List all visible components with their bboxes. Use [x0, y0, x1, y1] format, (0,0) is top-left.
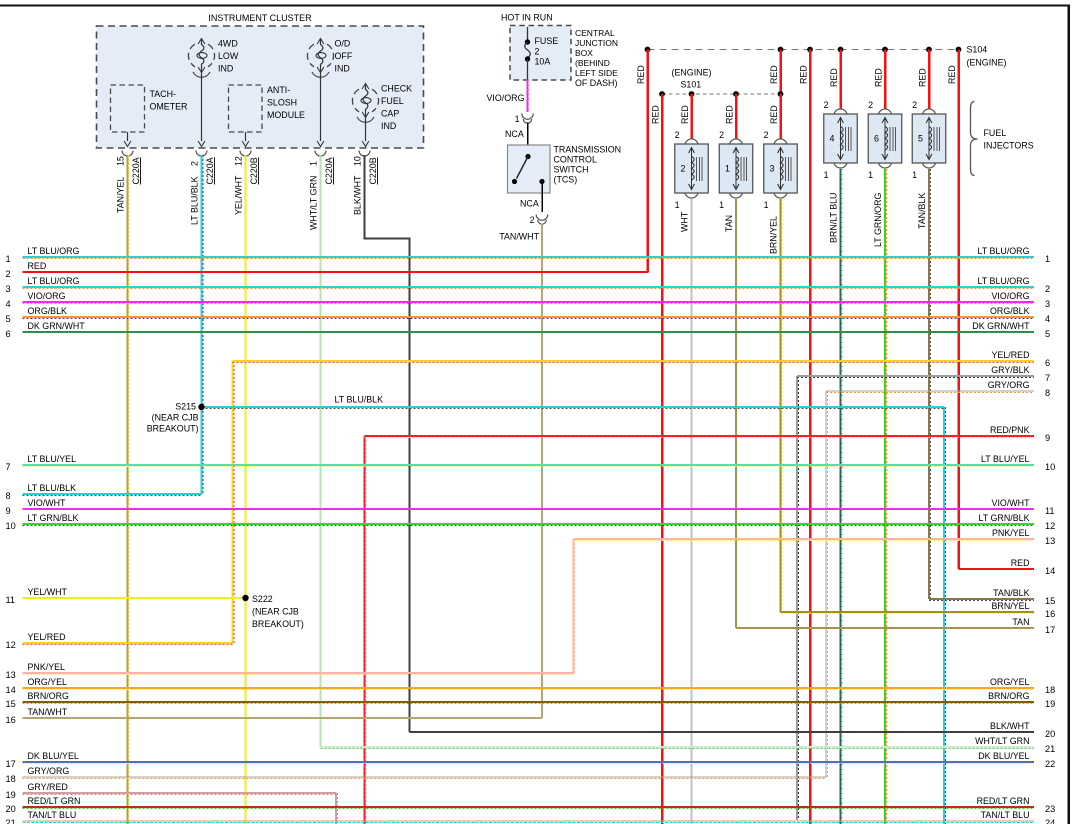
svg-text:1: 1	[868, 170, 873, 180]
injector 1 (fuel injector coil)	[719, 130, 753, 232]
svg-text:5: 5	[918, 134, 923, 144]
svg-text:IND: IND	[335, 64, 350, 74]
svg-text:(NEAR CJB: (NEAR CJB	[152, 413, 199, 423]
svg-text:24: 24	[1045, 818, 1055, 824]
svg-text:C220A: C220A	[205, 157, 215, 184]
svg-text:8: 8	[1045, 388, 1050, 398]
wire YEL/RED horizontal y=643	[23, 643, 234, 644]
wire TAN/YEL vertical x=127.5	[128, 155, 129, 824]
lamp 4WD LOW IND	[188, 39, 238, 78]
svg-text:ORG/BLK: ORG/BLK	[990, 306, 1030, 316]
svg-text:ORG/BLK: ORG/BLK	[28, 306, 68, 316]
svg-text:TAN: TAN	[1012, 617, 1029, 627]
connector C220B pin 12 (YEL/WHT)	[234, 151, 259, 216]
svg-text:WHT: WHT	[680, 211, 690, 232]
wire LT BLU/BLK from S215 horizontal y=407	[202, 407, 945, 408]
wire BRN/ORG horizontal y=702	[23, 702, 1035, 703]
svg-text:TAN/WHT: TAN/WHT	[499, 232, 539, 242]
wire RED S101 to injector 1 vertical x=736	[735, 94, 738, 139]
svg-text:SLOSH: SLOSH	[267, 98, 297, 108]
wire GRY/BLK dropper vertical x=797	[797, 376, 798, 820]
svg-text:MODULE: MODULE	[267, 110, 305, 120]
svg-text:O/D: O/D	[335, 39, 351, 49]
svg-text:(TCS): (TCS)	[554, 175, 578, 185]
svg-text:LT BLU/ORG: LT BLU/ORG	[28, 246, 80, 256]
wire YEL/RED horizontal y=361	[233, 361, 1035, 362]
svg-text:2: 2	[868, 100, 873, 110]
svg-text:6: 6	[6, 329, 11, 339]
svg-text:2: 2	[535, 47, 540, 57]
svg-text:3: 3	[770, 164, 775, 174]
svg-text:1: 1	[824, 170, 829, 180]
wire ORG/BLK horizontal y=317	[23, 317, 1035, 318]
wire WHT/LT GRN vertical x=320.5	[320, 155, 322, 747]
anti-slosh module box	[229, 85, 306, 132]
svg-text:(BEHIND: (BEHIND	[575, 58, 610, 68]
wire VIO/WHT horizontal y=509	[23, 508, 1035, 510]
svg-text:10: 10	[6, 521, 16, 531]
svg-text:GRY/BLK: GRY/BLK	[991, 365, 1029, 375]
svg-text:VIO/ORG: VIO/ORG	[487, 93, 525, 103]
injector 5 (fuel injector coil)	[912, 100, 946, 229]
wire PNK/YEL riser vertical x=573.5	[574, 539, 575, 673]
wire 4WD lamp to connector	[198, 73, 205, 147]
splice S222	[242, 594, 304, 629]
svg-text:LEFT SIDE: LEFT SIDE	[575, 68, 618, 78]
svg-text:22: 22	[1045, 759, 1055, 769]
svg-text:RED: RED	[28, 261, 47, 271]
svg-text:RED: RED	[636, 65, 646, 84]
wire RED S104 to row RED (right) vertical x=958.5	[957, 50, 960, 570]
svg-text:VIO/WHT: VIO/WHT	[992, 498, 1031, 508]
svg-text:19: 19	[1045, 699, 1055, 709]
connector C220A pin 15 (TAN/YEL)	[116, 151, 141, 214]
svg-text:RED/PNK: RED/PNK	[990, 425, 1030, 435]
wire GRY/ORG horizontal y=391	[826, 391, 1034, 392]
svg-text:RED: RED	[769, 105, 779, 124]
svg-text:TAN/WHT: TAN/WHT	[28, 707, 68, 717]
svg-text:16: 16	[6, 715, 16, 725]
svg-text:DK GRN/WHT: DK GRN/WHT	[972, 321, 1030, 331]
svg-text:BLK/WHT: BLK/WHT	[990, 721, 1030, 731]
svg-text:S101: S101	[681, 80, 702, 90]
wire RED S101 drop to bottom vertical x=662	[661, 94, 664, 824]
svg-text:LT BLU/BLK: LT BLU/BLK	[190, 176, 200, 225]
svg-text:TAN/YEL: TAN/YEL	[116, 177, 126, 213]
wire LT BLU/BLK dropper from S215 line vertical x=944	[944, 407, 945, 824]
svg-text:S104: S104	[967, 45, 988, 55]
svg-text:YEL/WHT: YEL/WHT	[234, 175, 244, 215]
svg-text:LT GRN/BLK: LT GRN/BLK	[28, 513, 79, 523]
svg-text:HOT IN RUN: HOT IN RUN	[501, 13, 553, 23]
svg-text:17: 17	[6, 759, 16, 769]
injector 4 (fuel injector coil)	[824, 100, 858, 243]
svg-text:RED/LT GRN: RED/LT GRN	[28, 796, 81, 806]
svg-text:WHT/LT GRN: WHT/LT GRN	[309, 176, 319, 230]
svg-text:GRY/RED: GRY/RED	[28, 782, 68, 792]
svg-text:VIO/ORG: VIO/ORG	[28, 291, 66, 301]
wire VIO/ORG horizontal y=302	[23, 302, 1035, 303]
wire check fuel cap lamp to connector	[362, 118, 369, 147]
svg-text:RED/LT GRN: RED/LT GRN	[977, 796, 1030, 806]
wire RED/LT GRN horizontal y=807	[23, 807, 1035, 808]
svg-text:RED: RED	[725, 105, 735, 124]
svg-text:CENTRAL: CENTRAL	[575, 28, 615, 38]
wire RED S104 to injector 4 vertical x=840.5	[839, 50, 842, 110]
wire BRN/LT BLU from injector 4 vertical x=840.5	[841, 169, 842, 824]
svg-text:11: 11	[6, 595, 16, 605]
svg-text:WHT/LT GRN: WHT/LT GRN	[975, 736, 1029, 746]
svg-text:1: 1	[515, 114, 520, 124]
svg-text:5: 5	[6, 314, 11, 324]
svg-text:19: 19	[6, 790, 16, 800]
svg-text:20: 20	[6, 804, 16, 814]
svg-text:15: 15	[6, 699, 16, 709]
wire TAN/BLK horizontal y=599	[929, 599, 1034, 600]
svg-text:FUEL: FUEL	[984, 128, 1007, 138]
svg-text:2: 2	[824, 100, 829, 110]
wire RED/PNK horizontal y=436	[365, 436, 1035, 437]
svg-text:LT BLU/YEL: LT BLU/YEL	[28, 454, 77, 464]
wire PNK/YEL horizontal y=539	[574, 539, 1035, 540]
svg-text:6: 6	[874, 134, 879, 144]
svg-text:ANTI-: ANTI-	[267, 85, 290, 95]
svg-text:18: 18	[6, 774, 16, 784]
svg-text:INJECTORS: INJECTORS	[984, 141, 1034, 151]
svg-text:NCA: NCA	[505, 129, 524, 139]
svg-text:IND: IND	[381, 121, 396, 131]
svg-text:YEL/WHT: YEL/WHT	[28, 587, 68, 597]
wire RED S104 to row RED (left) vertical x=647.5	[646, 50, 649, 273]
svg-text:RED: RED	[829, 68, 839, 87]
wire RED/PNK dropper vertical x=364.5	[365, 436, 366, 824]
instrument cluster box	[97, 13, 424, 148]
svg-text:RED: RED	[918, 68, 928, 87]
wire BLK/WHT horizontal y=732	[410, 731, 1035, 733]
wire tachometer to connector	[124, 132, 131, 147]
wire GRY/RED horizontal y=793	[23, 793, 337, 794]
central junction box	[510, 26, 618, 89]
svg-text:2: 2	[190, 161, 200, 166]
wire BLK/WHT from cluster (jog)	[365, 155, 410, 732]
svg-text:15: 15	[1045, 596, 1055, 606]
svg-text:GRY/ORG: GRY/ORG	[28, 766, 70, 776]
inline connector pin 1 (NCA)	[505, 114, 533, 140]
svg-text:2: 2	[530, 215, 535, 225]
svg-text:OFF: OFF	[335, 51, 353, 61]
wire LT BLU/YEL horizontal y=465	[23, 465, 1035, 466]
svg-text:DK GRN/WHT: DK GRN/WHT	[28, 321, 86, 331]
svg-text:13: 13	[1045, 536, 1055, 546]
svg-text:1: 1	[6, 254, 11, 264]
svg-text:21: 21	[1045, 744, 1055, 754]
svg-text:BREAKOUT): BREAKOUT)	[252, 619, 304, 629]
wire TAN/WHT from TCS vertical x=542	[541, 224, 543, 719]
wire YEL/WHT horizontal y=598	[23, 597, 246, 599]
svg-text:PNK/YEL: PNK/YEL	[992, 528, 1030, 538]
svg-text:FUEL: FUEL	[381, 96, 404, 106]
svg-text:10A: 10A	[535, 57, 551, 67]
svg-text:11: 11	[1045, 506, 1055, 516]
svg-text:CHECK: CHECK	[381, 84, 412, 94]
svg-text:DK BLU/YEL: DK BLU/YEL	[28, 751, 79, 761]
svg-text:(ENGINE): (ENGINE)	[967, 58, 1007, 68]
svg-text:(NEAR CJB: (NEAR CJB	[252, 607, 299, 617]
svg-text:4WD: 4WD	[218, 39, 238, 49]
splice S215	[147, 402, 205, 434]
svg-text:4: 4	[830, 134, 835, 144]
svg-text:FUSE: FUSE	[535, 36, 559, 46]
svg-text:2: 2	[681, 164, 686, 174]
connector C220A pin 2 (LT BLU/BLK)	[190, 151, 215, 226]
wire GRY/RED dropper vertical x=336	[336, 793, 337, 824]
svg-text:LT GRN/BLK: LT GRN/BLK	[979, 513, 1030, 523]
svg-text:C220A: C220A	[324, 157, 334, 184]
svg-text:9: 9	[6, 506, 11, 516]
svg-text:12: 12	[1045, 521, 1055, 531]
svg-text:RED: RED	[1011, 558, 1030, 568]
svg-text:10: 10	[353, 156, 363, 166]
wire LT BLU/ORG horizontal y=287	[23, 287, 1035, 288]
svg-text:TAN: TAN	[724, 215, 734, 232]
svg-text:TAN/BLK: TAN/BLK	[993, 588, 1029, 598]
fuel injectors brace	[971, 102, 1034, 176]
svg-text:ORG/YEL: ORG/YEL	[28, 677, 68, 687]
svg-text:BRN/YEL: BRN/YEL	[769, 216, 779, 254]
svg-text:18: 18	[1045, 685, 1055, 695]
svg-text:17: 17	[1045, 625, 1055, 635]
svg-text:1: 1	[912, 170, 917, 180]
svg-text:CAP: CAP	[381, 109, 399, 119]
wire TAN/WHT horizontal y=718	[23, 717, 543, 719]
svg-text:4: 4	[6, 299, 11, 309]
svg-text:LT BLU/BLK: LT BLU/BLK	[335, 395, 384, 405]
svg-text:4: 4	[1045, 314, 1050, 324]
svg-text:LT GRN/ORG: LT GRN/ORG	[873, 192, 883, 247]
svg-text:2: 2	[1045, 284, 1050, 294]
svg-text:ORG/YEL: ORG/YEL	[990, 677, 1030, 687]
wire RED S104 to injector 5 vertical x=929	[928, 50, 931, 110]
svg-text:23: 23	[1045, 804, 1055, 814]
svg-text:BOX: BOX	[575, 48, 593, 58]
svg-text:BRN/ORG: BRN/ORG	[28, 691, 70, 701]
wire PNK/YEL horizontal y=673	[23, 673, 575, 674]
svg-text:NCA: NCA	[520, 199, 539, 209]
wire RED horizontal y=569	[959, 568, 1035, 570]
svg-text:1: 1	[719, 200, 724, 210]
svg-text:13: 13	[6, 670, 16, 680]
svg-text:RED: RED	[947, 65, 957, 84]
svg-text:BREAKOUT): BREAKOUT)	[147, 424, 199, 434]
node S104 label	[967, 45, 1007, 68]
svg-text:LT BLU/ORG: LT BLU/ORG	[978, 276, 1030, 286]
wire anti-slosh module to connector	[242, 132, 249, 147]
svg-text:PNK/YEL: PNK/YEL	[28, 662, 66, 672]
wire RED horizontal y=272	[23, 271, 649, 273]
wire TAN/LT BLU horizontal y=821	[23, 820, 1035, 822]
svg-text:1: 1	[1045, 254, 1050, 264]
svg-text:DK BLU/YEL: DK BLU/YEL	[978, 751, 1029, 761]
fuse 2 10A	[525, 27, 559, 80]
svg-text:C220B: C220B	[249, 157, 259, 184]
svg-text:LOW: LOW	[218, 51, 239, 61]
svg-text:TAN/BLK: TAN/BLK	[917, 193, 927, 229]
wire LT BLU/BLK horizontal y=494	[23, 494, 203, 495]
svg-text:RED: RED	[651, 105, 661, 124]
svg-text:RED: RED	[680, 105, 690, 124]
svg-text:LT BLU/YEL: LT BLU/YEL	[981, 454, 1030, 464]
lamp CHECK FUEL CAP IND	[352, 84, 412, 132]
svg-text:9: 9	[1045, 433, 1050, 443]
wire WHT/LT GRN horizontal y=747	[321, 747, 1035, 748]
svg-text:BRN/YEL: BRN/YEL	[992, 601, 1030, 611]
svg-text:TACH-: TACH-	[150, 89, 176, 99]
svg-text:3: 3	[6, 284, 11, 294]
splice bus S104 (dashed)	[645, 47, 962, 53]
svg-text:6: 6	[1045, 358, 1050, 368]
svg-text:21: 21	[6, 818, 16, 824]
wire TAN horizontal y=628	[736, 627, 1034, 629]
wire RED S104 drop to bottom vertical x=810	[809, 50, 812, 824]
svg-text:12: 12	[234, 156, 244, 166]
wire BRN/YEL horizontal y=612	[781, 612, 1035, 613]
svg-text:(ENGINE): (ENGINE)	[672, 68, 712, 78]
svg-text:RED: RED	[799, 65, 809, 84]
svg-text:1: 1	[725, 164, 730, 174]
wire GRY/BLK horizontal y=376	[797, 376, 1034, 377]
wire LT BLU/ORG horizontal y=257	[23, 257, 1035, 258]
injector 6 (fuel injector coil)	[868, 100, 902, 247]
svg-text:RED: RED	[769, 65, 779, 84]
svg-text:2: 2	[912, 100, 917, 110]
svg-text:VIO/ORG: VIO/ORG	[992, 291, 1030, 301]
wire RED S101 to injector 2 vertical x=691.5	[690, 94, 693, 139]
svg-text:14: 14	[6, 685, 16, 695]
tachometer box	[111, 85, 188, 132]
injector 2 (fuel injector coil)	[675, 130, 709, 232]
svg-text:TAN/LT BLU: TAN/LT BLU	[981, 810, 1030, 820]
svg-text:10: 10	[1045, 462, 1055, 472]
wire WHT from injector 2 vertical x=691.5	[691, 199, 693, 824]
svg-text:LT BLU/ORG: LT BLU/ORG	[28, 276, 80, 286]
transmission control switch (TCS)	[508, 145, 622, 194]
svg-text:S215: S215	[175, 402, 196, 412]
svg-text:OF DASH): OF DASH)	[575, 78, 617, 88]
svg-text:2: 2	[6, 269, 11, 279]
wire BRN/YEL from injector 3 vertical x=780.5	[781, 199, 782, 612]
right page border	[1068, 5, 1070, 824]
svg-text:20: 20	[1045, 729, 1055, 739]
wire RED S101 to injector 3 vertical x=780.5	[779, 94, 782, 139]
svg-text:OMETER: OMETER	[150, 102, 188, 112]
svg-text:JUNCTION: JUNCTION	[575, 38, 618, 48]
svg-text:BRN/ORG: BRN/ORG	[988, 691, 1030, 701]
lamp O/D OFF IND	[307, 39, 352, 78]
TCS output connector pin 2 (NCA)	[520, 199, 548, 226]
wire DK GRN/WHT horizontal y=332	[23, 331, 1035, 333]
svg-text:YEL/RED: YEL/RED	[992, 350, 1030, 360]
svg-text:CONTROL: CONTROL	[554, 155, 597, 165]
svg-text:1: 1	[764, 200, 769, 210]
svg-text:RED: RED	[874, 68, 884, 87]
wire VIO/ORG fuse output vertical x=527.5	[528, 80, 529, 113]
node S101 label	[672, 68, 712, 90]
svg-text:TAN/LT BLU: TAN/LT BLU	[28, 810, 77, 820]
svg-text:VIO/WHT: VIO/WHT	[28, 498, 67, 508]
svg-text:16: 16	[1045, 609, 1055, 619]
top page border	[0, 4, 1070, 6]
svg-text:C220B: C220B	[368, 157, 378, 184]
svg-text:INSTRUMENT CLUSTER: INSTRUMENT CLUSTER	[208, 13, 312, 23]
svg-text:5: 5	[1045, 329, 1050, 339]
svg-text:7: 7	[6, 462, 11, 472]
wire GRY/ORG horizontal y=777	[23, 777, 827, 778]
connector C220A pin 1 (WHT/LT GRN)	[309, 151, 334, 231]
svg-text:LT BLU/BLK: LT BLU/BLK	[28, 483, 77, 493]
svg-text:S222: S222	[252, 594, 273, 604]
wire RED S104 to injector 6 vertical x=885	[884, 50, 887, 110]
svg-text:1: 1	[675, 200, 680, 210]
svg-text:LT BLU/ORG: LT BLU/ORG	[978, 246, 1030, 256]
svg-text:SWITCH: SWITCH	[554, 165, 589, 175]
splice bus S101 (dashed)	[659, 91, 783, 97]
svg-text:YEL/RED: YEL/RED	[28, 632, 66, 642]
svg-text:2: 2	[675, 130, 680, 140]
wire connector to TCS	[527, 123, 529, 157]
svg-text:C220A: C220A	[131, 157, 141, 184]
svg-text:IND: IND	[218, 64, 233, 74]
injector 3 (fuel injector coil)	[764, 130, 798, 254]
wire LT BLU/BLK riser S215 vertical x=201.5	[202, 155, 203, 494]
svg-text:3: 3	[1045, 299, 1050, 309]
wire RED S104 to S101 vertical x=780.5	[779, 50, 782, 95]
wire ORG/YEL horizontal y=688	[23, 688, 1035, 689]
wire LT GRN/BLK horizontal y=524	[23, 524, 1035, 525]
wire LT GRN/ORG from injector 6 vertical x=885	[885, 169, 886, 824]
wire DK BLU/YEL horizontal y=762	[23, 762, 1035, 763]
wire TCS output	[541, 182, 543, 213]
svg-text:TRANSMISSION: TRANSMISSION	[554, 145, 622, 155]
svg-text:BRN/LT BLU: BRN/LT BLU	[829, 193, 839, 243]
wire TAN from injector 1 vertical x=736	[735, 199, 737, 628]
svg-text:12: 12	[6, 640, 16, 650]
svg-text:7: 7	[1045, 373, 1050, 383]
wire TAN/LT BLU cyan stripe	[23, 822, 1035, 824]
svg-text:2: 2	[719, 130, 724, 140]
wire GRY/ORG riser vertical x=826	[826, 391, 827, 777]
svg-text:15: 15	[116, 156, 126, 166]
svg-text:14: 14	[1045, 566, 1055, 576]
svg-text:8: 8	[6, 491, 11, 501]
wire O/D lamp to connector	[317, 73, 324, 147]
svg-text:GRY/ORG: GRY/ORG	[988, 380, 1030, 390]
wire YEL/WHT vertical x=245.5	[245, 155, 247, 824]
svg-text:1: 1	[309, 161, 319, 166]
wire TAN/BLK from injector 5 vertical x=929	[929, 169, 930, 599]
svg-text:BLK/WHT: BLK/WHT	[353, 175, 363, 215]
connector C220B pin 10 (BLK/WHT)	[353, 151, 378, 216]
wire YEL/RED riser vertical x=232.5	[233, 361, 234, 643]
svg-text:2: 2	[764, 130, 769, 140]
